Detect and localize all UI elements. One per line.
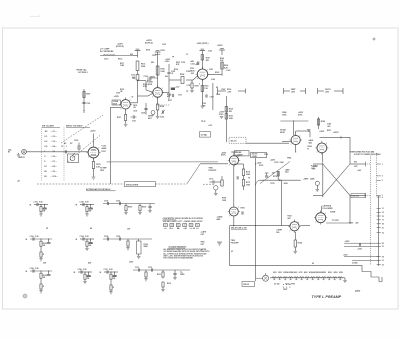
+225V distribution wire upper (280, 120, 308, 122)
svg-text:21: 21 (382, 228, 384, 230)
svg-text:SW 601: SW 601 (243, 284, 249, 286)
svg-text:B101: B101 (273, 272, 277, 274)
svg-text:990K: 990K (144, 246, 149, 248)
wire comp to plate rail (133, 55, 138, 57)
svg-text:B162: B162 (304, 272, 308, 274)
svg-text:SEL DC: SEL DC (231, 140, 238, 142)
resistor R115 (225, 114, 227, 120)
cap C103 above input line (77, 145, 80, 147)
svg-text:19: 19 (382, 224, 384, 226)
power wire pin 100 (344, 245, 379, 247)
switch linkage dashed diagonal 2 (68, 136, 101, 163)
svg-text:11: 11 (382, 208, 384, 210)
crossover right vertical (349, 137, 351, 164)
attenuator cell row2 left (30, 238, 52, 240)
svg-text:7: 7 (229, 164, 230, 166)
resistor R114 (225, 107, 227, 113)
svg-text:C159: C159 (181, 62, 185, 64)
test point dots (282, 283, 285, 286)
test bracket 2 (283, 88, 285, 94)
svg-text:6DJ8: 6DJ8 (148, 84, 153, 86)
ground input connector (18, 153, 20, 155)
svg-text:TRIG: TRIG (100, 170, 105, 172)
svg-text:R165: R165 (215, 72, 219, 74)
pot R176 level adjust (214, 186, 218, 190)
crossover top out wire (350, 163, 366, 165)
resistor R175 (242, 180, 244, 187)
svg-text:—X7—: —X7— (51, 161, 57, 163)
grid leak branch (138, 80, 147, 82)
svg-text:7: 7 (197, 79, 198, 81)
svg-text:R180: R180 (284, 183, 288, 185)
tube V133 input cathode follower (88, 147, 99, 158)
wire HF compensation line (100, 55, 133, 57)
svg-text:R106: R106 (142, 207, 146, 209)
svg-text:R186: R186 (321, 121, 325, 123)
svg-text:3.9M: 3.9M (120, 65, 124, 67)
svg-text:R157: R157 (168, 100, 172, 102)
switch linkage dashed diagonal 1 (61, 115, 103, 143)
wire right riser to crossover (349, 195, 351, 223)
resistor R116 (136, 61, 139, 71)
svg-text:7: 7 (152, 97, 153, 99)
svg-text:DCPL: DCPL (298, 114, 303, 116)
svg-text:—X5—: —X5— (51, 151, 57, 153)
wire V173 plate top (233, 152, 235, 156)
wire center vertical R114 branch (225, 96, 227, 142)
resistor R163 (201, 86, 203, 92)
svg-text:L161: L161 (209, 69, 213, 71)
resistor R174 (242, 169, 244, 176)
svg-text:1: 1 (382, 164, 383, 166)
junction dot cal line (83, 110, 84, 111)
svg-text:R111: R111 (157, 274, 161, 276)
svg-text:R178: R178 (273, 176, 277, 178)
resistor R166 load right (221, 62, 223, 76)
decoupling cap plate rail (135, 50, 141, 52)
wire input line (26, 151, 69, 153)
capacitor C163 branch (205, 94, 207, 97)
attenuator cell row3 a (30, 270, 52, 272)
junction dot pickoff bus (279, 179, 281, 181)
dashed leader continue (156, 183, 188, 185)
attenuator cell X2 row1 (34, 204, 48, 206)
svg-text:TP 47: TP 47 (201, 120, 206, 123)
svg-text:INPUT: INPUT (19, 157, 26, 159)
svg-text:.005: .005 (132, 78, 135, 80)
svg-text:(DCPLD): (DCPLD) (116, 46, 124, 48)
svg-text:C103: C103 (30, 236, 34, 238)
svg-text:+225V (DCPL): +225V (DCPL) (197, 43, 209, 45)
resistor R194 (294, 232, 296, 240)
attenuator cell row2 right tall resistor (103, 238, 152, 240)
wire V152B plate to V161 grid (162, 91, 169, 93)
heater pilot lamp circle (263, 275, 269, 281)
svg-text:6AU6: 6AU6 (102, 147, 107, 150)
svg-text:B290: B290 (328, 272, 332, 274)
svg-text:820: 820 (165, 76, 168, 78)
pickoff bus horizontal (260, 179, 301, 181)
svg-text:C151: C151 (132, 121, 136, 123)
input connector J1 (22, 149, 27, 154)
svg-text:7: 7 (317, 152, 318, 154)
svg-text:.005: .005 (327, 126, 330, 128)
svg-text:C106: C106 (78, 269, 82, 271)
svg-text:+225V: +225V (333, 132, 339, 134)
svg-text:3: 3 (382, 176, 383, 178)
tube V173 (229, 156, 238, 165)
connector dashed rail (370, 156, 372, 266)
svg-text:DCPL: DCPL (259, 165, 264, 167)
legend strip symbols (164, 224, 168, 227)
attenuator cell X4 row1 (80, 204, 94, 206)
svg-text:DCPL: DCPL (219, 114, 224, 116)
svg-text:7: 7 (229, 215, 230, 217)
svg-text:TO CRT: TO CRT (332, 220, 340, 222)
attenuator cell row3 c (104, 271, 118, 273)
svg-text:DELAY LINE L-190: DELAY LINE L-190 (231, 227, 247, 230)
resistor R158 interstage (181, 77, 184, 84)
power wire pin 6.3 (352, 259, 379, 261)
shield gray line (107, 161, 219, 163)
svg-text:220K: 220K (141, 66, 146, 68)
svg-text:GRID: GRID (180, 274, 185, 276)
svg-text:B173: B173 (299, 272, 303, 274)
svg-text:L165: L165 (227, 70, 231, 72)
svg-text:1: 1 (298, 222, 299, 224)
svg-text:S/N 101-4999: S/N 101-4999 (42, 125, 54, 128)
svg-text:8-50: 8-50 (35, 236, 38, 238)
capacitor C165 on vertical (171, 94, 173, 97)
wire V173 long cathode line (233, 165, 235, 208)
svg-text:+225V: +225V (270, 160, 276, 162)
svg-text:FOLLOWER: FOLLOWER (323, 208, 334, 210)
power wire pin -150 (344, 256, 379, 258)
wire V183B plate bus (320, 136, 351, 138)
junction dot grid rail (110, 162, 111, 163)
ground pot (214, 193, 218, 195)
svg-text:7: 7 (289, 230, 290, 232)
svg-text:R101: R101 (86, 94, 90, 96)
svg-text:R159: R159 (195, 86, 199, 88)
svg-text:C120: C120 (162, 44, 166, 46)
svg-text:31: 31 (382, 260, 384, 262)
power resistor upper right (318, 117, 320, 129)
wire plate rail down (137, 71, 139, 75)
boxed note lower (242, 282, 255, 287)
crossover diag 2 (323, 164, 350, 195)
svg-text:—X2—: —X2— (51, 136, 57, 138)
gain adj network below (145, 103, 147, 112)
svg-text:B161: B161 (294, 272, 298, 274)
svg-text:R158: R158 (180, 74, 184, 76)
svg-text:+105V: +105V (165, 59, 171, 61)
test bracket 3 (317, 88, 319, 94)
resistor R161 (201, 55, 203, 60)
ground V133 cathode resistor (93, 169, 95, 177)
grid resistor R159 (191, 83, 193, 88)
capacitor C178 hanging (266, 173, 268, 175)
attenuator cell row3 d wide (133, 269, 190, 271)
svg-text:1: 1 (207, 69, 208, 71)
svg-text:C106: C106 (116, 201, 120, 203)
svg-text:+100V: +100V (319, 131, 325, 133)
svg-text:TYPE L PREAMP: TYPE L PREAMP (312, 295, 342, 299)
svg-text:R153: R153 (161, 50, 165, 52)
svg-text:13: 13 (382, 212, 384, 214)
loop left edge (229, 226, 231, 266)
svg-text:23: 23 (382, 232, 384, 234)
signal line mid horizontal (200, 163, 228, 165)
svg-text:PICKOFF: PICKOFF (231, 242, 240, 244)
loop top edge (230, 225, 267, 227)
long vertical signal line (255, 158, 257, 282)
svg-text:7: 7 (120, 108, 121, 110)
svg-text:R179: R179 (271, 183, 275, 185)
ground upper right power (307, 129, 311, 131)
svg-text:C1: C1 (61, 146, 63, 148)
svg-text:R194: R194 (298, 242, 302, 245)
junction dot output (349, 222, 350, 223)
svg-text:C176: C176 (264, 154, 268, 156)
svg-text:8-50: 8-50 (85, 202, 88, 204)
svg-text:7: 7 (315, 222, 316, 224)
resistor R154 cathode V152B (157, 97, 159, 104)
svg-text:SEE MECH PARTS LIST — WAFER: SEE MECH PARTS LIST — WAFER VIEWS FRONT (163, 220, 204, 223)
junction dot on long vertical (255, 163, 256, 164)
svg-text:LOADER: LOADER (235, 153, 243, 156)
wire V152A grid rail down to attenuator (110, 106, 121, 108)
ground V152A cathode net (124, 123, 128, 125)
switch list right dotted rail (63, 128, 65, 182)
svg-text:R166: R166 (220, 58, 224, 60)
svg-text:R155: R155 (147, 80, 151, 82)
svg-text:C190: C190 (349, 222, 353, 224)
peaking coil network right of V161 (208, 74, 222, 76)
svg-text:1: 1 (162, 88, 163, 90)
svg-text:—X1—: —X1— (51, 131, 57, 133)
attenuator detail dashed leader line (37, 183, 124, 185)
svg-text:6AU6: 6AU6 (190, 69, 195, 72)
svg-text:100K: 100K (246, 184, 251, 186)
svg-text:PICKOFF: PICKOFF (209, 170, 218, 172)
svg-text:R105: R105 (128, 207, 132, 209)
svg-text:25: 25 (382, 243, 384, 245)
svg-text:8-50: 8-50 (39, 202, 42, 204)
svg-text:29: 29 (382, 256, 384, 258)
wire V133 grid (86, 151, 88, 153)
svg-text:R156: R156 (174, 69, 178, 71)
heater bus line (270, 277, 345, 279)
svg-text:100: 100 (272, 173, 275, 175)
svg-text:C105: C105 (104, 201, 108, 203)
svg-text:C102: C102 (80, 202, 84, 204)
loop bottom staircase to connector (320, 266, 382, 282)
svg-text:C108: C108 (104, 236, 108, 238)
svg-text:—X9—: —X9— (51, 171, 57, 173)
test bracket 1 (217, 88, 219, 95)
svg-text:R151: R151 (117, 117, 121, 119)
svg-text:+225V: +225V (345, 241, 351, 243)
wire grid line to V183A (246, 142, 289, 144)
resistor R172 (221, 180, 223, 186)
crossover left stubs (313, 163, 323, 165)
pot R197 gain (315, 181, 319, 185)
wire V162 down to loop (233, 216, 235, 225)
wire V193 plate right (300, 225, 310, 227)
svg-text:R115: R115 (118, 59, 122, 61)
wire V193 grid from loop (267, 225, 290, 227)
svg-text:C160: C160 (208, 51, 212, 53)
switch SW1 ac-dc box (68, 154, 79, 163)
wire to input cathode follower (68, 151, 86, 153)
svg-text:R187: R187 (327, 130, 331, 132)
svg-text:C150: C150 (133, 110, 137, 112)
svg-text:—X4—: —X4— (51, 145, 57, 148)
svg-text:6.3VAC: 6.3VAC (352, 261, 359, 264)
attenuator cell row2 mid (80, 238, 94, 240)
svg-text:8-50: 8-50 (85, 236, 88, 238)
resistor R151 cathode (125, 115, 127, 121)
svg-text:V183B: V183B (330, 212, 336, 214)
svg-text:+225V: +225V (90, 131, 96, 133)
svg-text:C154: C154 (141, 112, 145, 115)
svg-text:3F: 3F (185, 228, 187, 230)
svg-text:+100V: +100V (357, 248, 363, 250)
wire lamp to bus (265, 273, 267, 275)
svg-text:C163: C163 (210, 97, 214, 99)
tube V152B (153, 88, 163, 98)
svg-text:C112: C112 (148, 267, 152, 269)
svg-text:15: 15 (382, 216, 384, 218)
resistor R152 (156, 66, 159, 75)
svg-text:1: 1 (326, 143, 327, 145)
boxed label gain adj V152A (112, 100, 121, 105)
svg-text:L162: L162 (211, 79, 215, 81)
svg-text:9: 9 (382, 197, 383, 199)
decoupling cap top of V152B supply (157, 52, 159, 88)
capacitor C158 coupling (167, 71, 170, 73)
svg-text:+VERT: +VERT (303, 179, 308, 181)
wire far-left cal input vertical (83, 89, 85, 113)
boxed label sig dc level (251, 152, 267, 157)
svg-text:C156: C156 (160, 117, 164, 119)
svg-text:5: 5 (199, 84, 200, 86)
dashed gang line gain (157, 104, 170, 106)
svg-text:R112: R112 (167, 283, 171, 285)
registration mark bottom left (23, 294, 27, 298)
heater winding bumps (272, 277, 276, 278)
crossover left vertical (322, 162, 324, 197)
svg-text:+225V: +225V (217, 45, 223, 47)
svg-text:27: 27 (382, 246, 384, 248)
capacitor C1 input coupling (64, 150, 66, 153)
tube V152A (121, 100, 130, 109)
svg-text:ADJ: ADJ (309, 141, 313, 144)
svg-text:6DJ8: 6DJ8 (280, 132, 285, 134)
svg-text:C105: C105 (30, 268, 34, 270)
svg-text:C101: C101 (34, 202, 38, 204)
svg-text:100K: 100K (160, 71, 165, 73)
wire bus down to loop (280, 180, 282, 225)
second vertical V161 load (212, 83, 214, 110)
wire V183B output down (322, 153, 324, 162)
svg-text:+225V: +225V (114, 96, 120, 98)
svg-text:5: 5 (382, 180, 383, 182)
attenuator switch boxed label (125, 182, 156, 187)
svg-text:+47: +47 (17, 180, 20, 183)
svg-text:LEVEL: LEVEL (252, 156, 257, 158)
wire V161 plate supply (201, 51, 203, 70)
svg-text:R+C NETWORK: R+C NETWORK (100, 51, 114, 53)
svg-text:.005: .005 (355, 222, 358, 224)
leader diagonal up (187, 164, 200, 184)
svg-text:470: 470 (167, 95, 170, 98)
svg-text:33: 33 (382, 265, 384, 267)
dashed select box (229, 137, 246, 143)
svg-text:1: 1 (325, 213, 326, 215)
svg-text:6DJ8: 6DJ8 (113, 103, 117, 105)
pot gain adj (151, 111, 155, 115)
svg-text:17: 17 (382, 220, 384, 222)
capacitor C161 (197, 61, 199, 64)
svg-text:820: 820 (130, 54, 133, 56)
registration mark upper right (373, 38, 375, 41)
svg-text:B350: B350 (339, 272, 343, 274)
svg-text:C109: C109 (116, 236, 120, 238)
heater ground right (344, 278, 346, 280)
svg-text:47: 47 (231, 250, 233, 253)
resistor R101 on cal line (83, 92, 85, 98)
tube V183B (317, 143, 327, 153)
wire output CF right (326, 222, 350, 224)
capacitor C152 (149, 76, 151, 79)
svg-text:schem 45: schem 45 (30, 15, 41, 18)
crossover diag 1 (323, 164, 350, 195)
svg-text:220K: 220K (246, 174, 251, 176)
svg-text:R176: R176 (274, 162, 278, 164)
wire resistor rail (243, 164, 245, 169)
svg-text:C103: C103 (74, 140, 78, 142)
svg-text:SIG OUT: SIG OUT (352, 196, 360, 198)
wire V152A plate to V152B grid (131, 102, 138, 104)
svg-text:1: 1 (238, 156, 239, 158)
svg-text:—X6—: —X6— (51, 156, 57, 158)
svg-text:SW101 ATTEN: SW101 ATTEN (126, 183, 139, 186)
svg-text:C115: C115 (104, 59, 108, 61)
connector pin dotted stubs upper (366, 163, 371, 165)
capacitor C174 (236, 176, 238, 179)
svg-text:DC BAL: DC BAL (201, 134, 207, 137)
resistor stack on bus (277, 171, 279, 180)
boxed label small left (200, 132, 211, 137)
svg-text:VOLTAGE READINGS: VOLTAGE READINGS (168, 245, 187, 248)
svg-text:C159: C159 (186, 71, 190, 73)
svg-text:—X8—: —X8— (51, 166, 57, 168)
wire V161 cathode chain down (201, 79, 203, 105)
tube V162 gate amp (229, 207, 238, 216)
boxed gain mark on vertical (171, 88, 175, 91)
power wire pin 225 (344, 242, 379, 244)
svg-text:R169: R169 (241, 208, 245, 210)
tube V193 vert sig out (290, 222, 299, 231)
svg-text:—X10—: —X10— (51, 176, 59, 178)
variable cap trimmer (161, 110, 163, 113)
svg-text:(DCPLD): (DCPLD) (145, 43, 153, 45)
wire gain network (145, 112, 147, 115)
ground V161 cathode (201, 105, 205, 107)
svg-text:C153: C153 (152, 55, 156, 57)
